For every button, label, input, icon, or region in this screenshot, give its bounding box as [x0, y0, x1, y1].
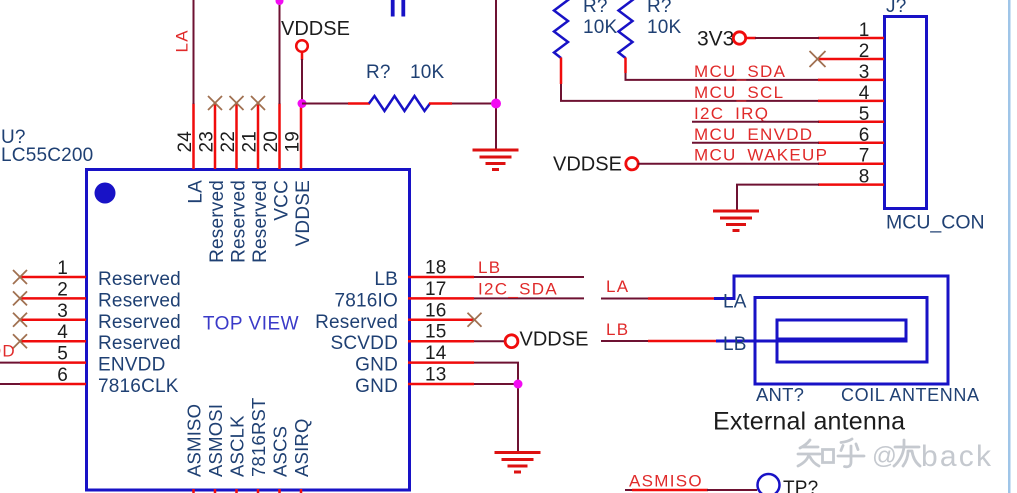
- bottom pin stub col 12: [300, 489, 303, 493]
- wire to pin 6 (from left edge): [0, 383, 20, 385]
- power port VDDSE circle (J pin 7): [626, 158, 638, 170]
- svg-text:MCU_ENVDD: MCU_ENVDD: [694, 125, 813, 144]
- svg-text:17: 17: [425, 279, 447, 300]
- svg-text:2: 2: [57, 279, 68, 300]
- J pin 4 stub: [818, 100, 884, 103]
- window edge line (right): [1008, 0, 1011, 493]
- svg-text:VDDSE: VDDSE: [281, 18, 350, 40]
- svg-text:10K: 10K: [410, 62, 445, 83]
- svg-text:18: 18: [425, 258, 447, 279]
- R1 left lead (red): [348, 102, 370, 105]
- pin 18 stub (right): [408, 276, 474, 279]
- svg-text:7816CLK: 7816CLK: [98, 376, 179, 397]
- svg-text:External antenna: External antenna: [713, 408, 905, 436]
- pin 17 stub (right): [408, 297, 474, 300]
- no-connect X pin 2: [13, 291, 27, 305]
- svg-text:R?: R?: [366, 62, 391, 83]
- svg-text:20: 20: [261, 131, 282, 153]
- chip U? LC55C200 body: [87, 170, 410, 491]
- svg-text:7: 7: [859, 146, 870, 167]
- svg-text:ANT?: ANT?: [756, 384, 804, 405]
- svg-text:ENVDD: ENVDD: [98, 355, 166, 376]
- svg-text:R?: R?: [647, 0, 672, 17]
- power port 3V3 circle: [733, 32, 745, 44]
- wire junction to R1 left lead: [302, 103, 348, 105]
- testpoint TP? circle: [758, 474, 780, 493]
- svg-text:Reserved: Reserved: [98, 290, 181, 311]
- svg-text:13: 13: [425, 365, 447, 386]
- J pin 1 stub: [818, 37, 884, 40]
- pin 4 stub (left): [20, 340, 86, 343]
- connector J? body: [885, 17, 927, 209]
- svg-text:5: 5: [859, 104, 870, 125]
- svg-text:21: 21: [240, 131, 261, 153]
- svg-text:LC55C200: LC55C200: [1, 145, 93, 166]
- svg-text:TOP VIEW: TOP VIEW: [203, 314, 299, 335]
- antenna ANT? coil spiral: [714, 276, 948, 384]
- pin 24 stub (top): [192, 104, 195, 170]
- no-connect X pin 1: [13, 270, 27, 284]
- wire pin 14 to GND bus: [474, 363, 518, 452]
- wire ASMISO to TP (dark): [707, 489, 757, 491]
- pin 19 stub (top): [300, 104, 303, 170]
- svg-text:R?: R?: [583, 0, 608, 17]
- no-connect X J pin 2: [810, 51, 826, 67]
- no-connect X pin 4: [13, 334, 27, 348]
- svg-text:Reserved: Reserved: [250, 180, 271, 263]
- svg-text:ASCLK: ASCLK: [227, 415, 248, 477]
- wire pin 13 to GND bus: [474, 383, 518, 385]
- watermark 灰 glyph: [894, 440, 920, 466]
- svg-text:16: 16: [425, 300, 447, 321]
- wire pin 15 to VDDSE port: [474, 340, 506, 342]
- wire net LB from pin 18: [474, 276, 584, 278]
- svg-text:LB: LB: [374, 269, 398, 290]
- svg-text:VDDSE: VDDSE: [293, 180, 314, 246]
- pin 22 stub (top): [235, 104, 238, 170]
- pin 16 stub (right): [408, 319, 474, 322]
- pin 23 stub (top): [214, 104, 217, 170]
- svg-text:3: 3: [859, 62, 870, 83]
- resistor R3 zigzag (vertical): [619, 0, 633, 58]
- ground G1: [473, 150, 519, 170]
- svg-text:MCU_CON: MCU_CON: [886, 212, 985, 234]
- svg-text:DD: DD: [0, 342, 16, 361]
- svg-text:3: 3: [57, 301, 68, 322]
- svg-text:6: 6: [859, 125, 870, 146]
- svg-text:MCU_WAKEUP: MCU_WAKEUP: [694, 146, 828, 165]
- wire I2C_IRQ stub: [692, 121, 819, 123]
- svg-text:LA: LA: [606, 277, 629, 296]
- wire R2 to MCU_SCL row: [561, 84, 819, 101]
- svg-text:5: 5: [57, 344, 68, 365]
- wire VDDSE to J pin 7: [638, 163, 819, 165]
- svg-text:6: 6: [57, 365, 68, 386]
- svg-text:19: 19: [283, 131, 304, 153]
- svg-text:10K: 10K: [647, 17, 682, 38]
- bottom pin stub col 8: [214, 489, 217, 493]
- pin 6 stub (left): [20, 383, 86, 386]
- svg-text:8: 8: [859, 167, 870, 188]
- junction dot pin 19: [298, 99, 307, 108]
- svg-text:back: back: [921, 440, 993, 473]
- capacitor C? plates (cut off at top): [391, 0, 405, 17]
- VDDSE red stub below circle: [301, 52, 304, 60]
- 3V3 red stub: [746, 37, 757, 40]
- pin 20 stub (top): [278, 104, 281, 170]
- svg-text:LB: LB: [606, 320, 629, 339]
- svg-text:22: 22: [218, 131, 239, 153]
- svg-text:VDDSE: VDDSE: [553, 154, 622, 176]
- svg-text:Reserved: Reserved: [207, 180, 228, 263]
- J pin 5 stub: [818, 121, 884, 124]
- resistor R1 zigzag: [369, 96, 430, 111]
- svg-text:ASCS: ASCS: [270, 426, 291, 477]
- svg-text:J?: J?: [886, 0, 906, 17]
- svg-text:TP?: TP?: [783, 478, 818, 493]
- power port VDDSE circle (pin 15): [505, 335, 518, 348]
- no-connect X pin 22: [230, 96, 244, 110]
- wire vertical bus to ground: [495, 0, 497, 150]
- svg-text:4: 4: [859, 83, 870, 104]
- R2 bottom lead (red): [560, 58, 563, 85]
- svg-text:2: 2: [859, 41, 870, 62]
- svg-text:GND: GND: [355, 376, 398, 397]
- wire ASMISO left (dark): [625, 489, 633, 491]
- bottom pin stub col 11: [278, 489, 281, 493]
- wire to pin 5 (from left edge): [0, 362, 20, 364]
- wire ASMISO red segment: [632, 489, 708, 492]
- pin 13 stub (right): [408, 383, 474, 386]
- svg-text:14: 14: [425, 343, 447, 364]
- wire J pin 8 to ground: [737, 185, 819, 211]
- R1 right lead (red): [429, 102, 452, 105]
- junction dot pin 13 bus: [514, 380, 523, 389]
- svg-text:Reserved: Reserved: [98, 312, 181, 333]
- svg-text:4: 4: [57, 322, 68, 343]
- no-connect X pin 3: [13, 313, 27, 327]
- pin 1 stub (left): [20, 276, 86, 279]
- svg-text:ASMISO: ASMISO: [629, 472, 703, 491]
- svg-text:7816IO: 7816IO: [334, 290, 398, 311]
- pin 2 stub (left): [20, 297, 86, 300]
- wire net LB to antenna (dark): [601, 340, 649, 342]
- LB red segment: [648, 340, 717, 343]
- junction dot bus/R1: [491, 99, 501, 109]
- J pin 7 stub: [818, 162, 884, 165]
- svg-text:Reserved: Reserved: [98, 333, 181, 354]
- svg-text:I2C_IRQ: I2C_IRQ: [694, 104, 769, 123]
- ground G3: [495, 453, 541, 473]
- svg-text:1: 1: [859, 20, 870, 41]
- junction dot top of VCC wire: [276, 0, 284, 5]
- svg-text:ASMISO: ASMISO: [184, 404, 205, 477]
- svg-text:10K: 10K: [583, 17, 618, 38]
- svg-text:MCU_SDA: MCU_SDA: [694, 62, 786, 81]
- J pin 3 stub: [818, 79, 884, 82]
- wire VDDSE circle to junction: [301, 59, 303, 104]
- J pin 8 stub: [818, 183, 884, 186]
- chip U? pin-1 marker dot: [95, 183, 116, 204]
- svg-text:VDDSE: VDDSE: [520, 329, 589, 351]
- svg-text:LB: LB: [723, 334, 747, 355]
- power port VDDSE circle (top): [296, 40, 308, 52]
- svg-text:LA: LA: [173, 29, 192, 52]
- svg-text:I2C_SDA: I2C_SDA: [478, 280, 558, 299]
- pin 15 stub (right): [408, 340, 474, 343]
- wire net LA (vertical to pin 24): [193, 0, 195, 104]
- svg-text:LB: LB: [478, 258, 501, 277]
- svg-text:23: 23: [197, 131, 218, 153]
- ground G2: [713, 211, 759, 231]
- pin 5 stub (left): [20, 361, 86, 364]
- svg-text:1: 1: [57, 258, 68, 279]
- resistor R2 zigzag (vertical): [554, 0, 568, 58]
- J pin 6 stub: [818, 142, 884, 145]
- LA red segment: [648, 297, 715, 300]
- pin 21 stub (top): [257, 104, 260, 170]
- wire net LA to antenna (dark): [601, 298, 649, 300]
- wire R3 to MCU_SDA row: [626, 73, 820, 80]
- svg-text:VCC: VCC: [272, 180, 293, 221]
- no-connect X pin 21: [251, 96, 265, 110]
- watermark 知乎 glyphs: [798, 439, 864, 467]
- wire 3V3 to J pin 1: [755, 37, 819, 39]
- svg-text:Reserved: Reserved: [229, 180, 250, 263]
- wire net I2C_SDA from pin 17: [474, 297, 584, 299]
- bottom pin stub col 9: [235, 489, 238, 493]
- pin 14 stub (right): [408, 361, 474, 364]
- svg-text:ASIRQ: ASIRQ: [291, 418, 312, 477]
- pin 3 stub (left): [20, 319, 86, 322]
- R3 bottom lead (red): [624, 58, 627, 74]
- svg-text:LA: LA: [186, 180, 207, 204]
- svg-text:SCVDD: SCVDD: [330, 333, 398, 354]
- svg-text:Reserved: Reserved: [315, 312, 398, 333]
- bottom pin stub col 7: [192, 489, 195, 493]
- wire VCC (vertical to pin 20): [279, 0, 281, 104]
- svg-text:24: 24: [175, 131, 196, 153]
- svg-text:MCU_SCL: MCU_SCL: [694, 83, 784, 102]
- svg-text:Reserved: Reserved: [98, 269, 181, 290]
- bottom pin stub col 10: [257, 489, 260, 493]
- wire R1 to vertical bus: [452, 103, 497, 105]
- svg-text:7816RST: 7816RST: [248, 397, 269, 477]
- antenna inner turn doubled edge: [777, 338, 906, 341]
- svg-text:15: 15: [425, 322, 447, 343]
- no-connect X pin 23: [208, 96, 222, 110]
- svg-text:3V3: 3V3: [697, 28, 734, 51]
- wire MCU_ENVDD stub: [692, 142, 819, 144]
- no-connect X pin 16: [468, 313, 482, 327]
- svg-text:ASMOSI: ASMOSI: [205, 404, 226, 477]
- svg-text:GND: GND: [355, 355, 398, 376]
- svg-text:COIL ANTENNA: COIL ANTENNA: [841, 385, 980, 405]
- J pin 2 stub: [818, 58, 884, 61]
- svg-text:LA: LA: [723, 292, 747, 313]
